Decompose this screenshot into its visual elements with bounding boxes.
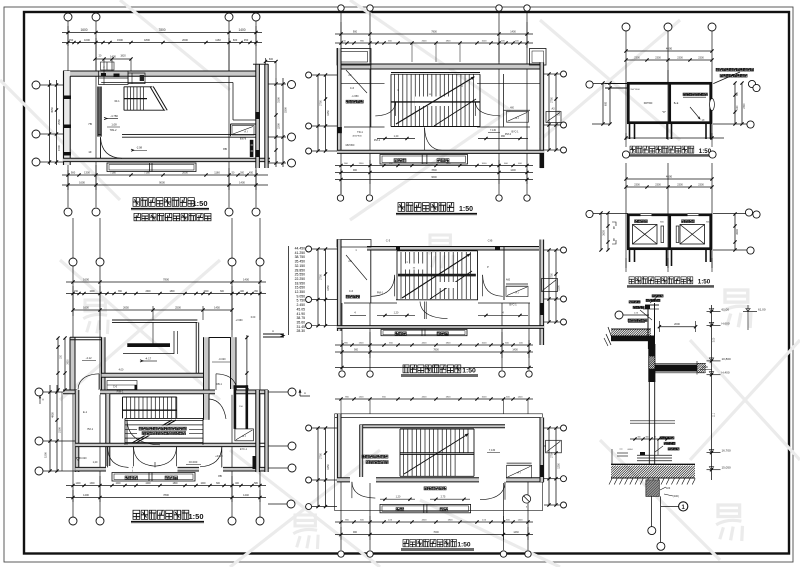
svg-text:28.30: 28.30 — [297, 329, 306, 333]
svg-text:C: C — [461, 84, 463, 88]
svg-text:-2.660: -2.660 — [235, 319, 243, 322]
D7 car door gaps — [641, 213, 699, 217]
D2 top dimension line 3 — [71, 286, 260, 330]
svg-text:61,00: 61,00 — [758, 308, 766, 312]
D8 top level mark — [743, 305, 766, 330]
svg-text:900: 900 — [71, 171, 76, 175]
svg-text:A: A — [272, 329, 274, 333]
D3 right wall — [540, 62, 544, 168]
svg-text:2600: 2600 — [182, 38, 188, 42]
D1 top exterior wall — [63, 71, 257, 76]
D6 shaft walls — [628, 70, 710, 123]
svg-text:2300: 2300 — [677, 184, 683, 187]
D3 right room — [504, 108, 531, 123]
D5 bottom dimension line 1 — [335, 520, 533, 524]
D8 wall break lines — [630, 421, 675, 423]
D2 axis bubbles top — [69, 258, 264, 266]
D3 left room — [346, 65, 371, 127]
svg-text:1500: 1500 — [44, 452, 48, 458]
svg-text:1400: 1400 — [510, 31, 516, 34]
svg-text:10,800: 10,800 — [722, 357, 732, 361]
D2 stair flights — [123, 397, 204, 445]
D8 roof slab — [604, 334, 655, 349]
svg-text:9000: 9000 — [159, 181, 165, 185]
svg-text:1400: 1400 — [518, 520, 524, 522]
D4 right outside box — [542, 279, 558, 292]
D5 axis bubbles left — [306, 425, 312, 510]
svg-text:1160: 1160 — [214, 171, 220, 175]
D1 door arc to corridor — [101, 137, 123, 158]
D2 court landing wall — [102, 373, 204, 377]
D2 canopy line — [112, 320, 199, 373]
D8 sill detail — [612, 437, 679, 464]
D5 hook symbol — [522, 495, 530, 509]
D1 right dim lines — [274, 78, 287, 167]
D3 axis bubbles right — [561, 71, 567, 153]
svg-text:1400: 1400 — [239, 181, 245, 185]
D2 bottom steps — [112, 473, 222, 482]
svg-text:1400: 1400 — [83, 493, 89, 497]
svg-text:900: 900 — [354, 349, 359, 352]
svg-text:H,400: H,400 — [722, 371, 730, 375]
svg-text:1000: 1000 — [482, 343, 488, 345]
svg-text:2700: 2700 — [551, 452, 554, 458]
D2 stair mid text — [139, 427, 186, 435]
svg-text:4400: 4400 — [422, 520, 428, 522]
D1 interior corridor wall — [98, 135, 256, 138]
D4 right dim lines — [547, 248, 560, 323]
D8 drop line 1 — [648, 496, 656, 534]
D1 top dimension line 2 — [62, 26, 262, 72]
D6 axis bubble left — [586, 81, 593, 88]
svg-text:MM 800: MM 800 — [346, 144, 355, 147]
svg-text:7B: 7B — [88, 122, 92, 126]
svg-text:B: B — [613, 226, 615, 230]
D8 foundation label — [664, 494, 679, 498]
D3 bottom steps — [380, 155, 468, 165]
D7 right dims — [733, 209, 760, 254]
D4 top wall — [367, 246, 539, 251]
svg-text:±0.000: ±0.000 — [189, 460, 198, 464]
svg-text:1300: 1300 — [359, 163, 365, 165]
D5 right wall — [540, 418, 544, 482]
svg-text:1:50: 1:50 — [192, 199, 207, 208]
D2 main left wall — [75, 390, 79, 472]
D8 parapet detail — [639, 295, 663, 336]
D3 top dimension line 1 — [335, 31, 533, 36]
D7 top dimension line 2 — [624, 184, 713, 189]
D6 top dimension line 2 — [624, 57, 713, 62]
D5 right dim lines — [547, 426, 560, 506]
svg-text:TD-1: TD-1 — [357, 130, 363, 134]
D7 axis grid lines — [592, 163, 747, 268]
svg-text:-4.780: -4.780 — [110, 114, 118, 118]
D4 right wall — [540, 240, 544, 346]
svg-text:2300: 2300 — [634, 184, 640, 187]
svg-text:2550: 2550 — [57, 119, 61, 125]
D4 stair flights — [396, 251, 478, 300]
svg-text:1600: 1600 — [83, 277, 89, 281]
D6 below-wall stubs — [624, 124, 724, 147]
D2 south wall — [75, 466, 268, 472]
svg-text:7800: 7800 — [433, 349, 439, 352]
D3 axis bubbles bottom — [337, 195, 530, 201]
D1 axis bubbles right — [288, 81, 296, 168]
svg-text:1250: 1250 — [327, 285, 330, 291]
svg-text:2300: 2300 — [655, 184, 661, 187]
svg-text:2650: 2650 — [123, 306, 129, 310]
D4 title — [401, 365, 478, 376]
D3 upper-right box — [530, 49, 547, 66]
D4 window tags — [386, 239, 493, 243]
D3 bottom wall — [337, 150, 544, 153]
D1 interior vertical wall — [98, 87, 101, 137]
svg-text:2500: 2500 — [175, 306, 181, 310]
D8 axis bubble — [615, 311, 649, 319]
D6 left appendix — [601, 81, 627, 125]
svg-text:450: 450 — [249, 172, 254, 175]
svg-text:1820: 1820 — [120, 55, 126, 58]
svg-text:A60: A60 — [506, 279, 511, 282]
svg-text:1160: 1160 — [215, 38, 221, 42]
svg-text:1400: 1400 — [359, 397, 365, 399]
D5 left dim lines — [316, 426, 329, 508]
D6 axis grid lines — [592, 31, 712, 140]
D1 stair flight — [124, 87, 167, 111]
D3 bottom dimension line 1 — [335, 163, 533, 167]
D4 left dim lines — [316, 247, 329, 327]
svg-text:2K: 2K — [348, 259, 351, 263]
svg-text:2300: 2300 — [634, 57, 640, 60]
D2 table arrow symbol — [263, 329, 284, 337]
svg-text:7800: 7800 — [158, 28, 165, 32]
D5 north arrow symbol — [299, 390, 310, 396]
svg-text:600: 600 — [605, 101, 608, 106]
D4 axis grid lines — [312, 249, 560, 370]
D6 axis bubbles top — [622, 23, 716, 31]
D1 bottom dimension line 2 — [62, 165, 268, 190]
svg-text:-1.650: -1.650 — [351, 95, 359, 98]
svg-text:1:50: 1:50 — [462, 368, 476, 375]
D3 bottom dimension line 2 — [335, 169, 533, 174]
svg-text:3100: 3100 — [277, 97, 281, 103]
D2 corridor wall — [75, 443, 268, 446]
svg-text:1X: 1X — [702, 119, 705, 122]
svg-text:A.I: A.I — [515, 291, 519, 295]
D1 stair top landing boxes — [99, 71, 146, 85]
D5 top wall — [335, 418, 543, 428]
svg-text:1:50: 1:50 — [698, 279, 711, 286]
svg-text:A.I: A.I — [242, 434, 246, 438]
D5 left wall — [337, 414, 341, 482]
svg-text:4600: 4600 — [666, 175, 673, 179]
D8 ground slab hatch — [599, 464, 710, 478]
svg-text:1400: 1400 — [75, 483, 81, 485]
D8 mid floor slab — [655, 321, 717, 375]
svg-text:11,1: 11,1 — [714, 412, 716, 417]
D8 soil hatch — [609, 479, 695, 485]
svg-text:EYC-1: EYC-1 — [240, 448, 248, 451]
svg-text:7,130: 7,130 — [489, 449, 496, 452]
D5 door arc left — [352, 482, 375, 498]
svg-text:-2.08: -2.08 — [136, 146, 143, 150]
svg-text:1440: 1440 — [243, 493, 249, 497]
svg-text:1300: 1300 — [359, 343, 365, 345]
svg-text:1000: 1000 — [203, 291, 209, 293]
D4 south inner line — [344, 302, 530, 304]
D8 drop line 2 — [657, 496, 665, 550]
svg-text:7800: 7800 — [431, 31, 437, 34]
svg-text:C-B: C-B — [488, 239, 493, 243]
D5 top dimension line — [335, 397, 533, 401]
svg-text:1000: 1000 — [482, 163, 488, 165]
D4 left wall — [337, 240, 341, 332]
D5 machine texts — [362, 449, 500, 464]
svg-text:7800: 7800 — [163, 277, 169, 281]
svg-text:1400: 1400 — [243, 277, 249, 281]
D3 axis bubbles left — [306, 72, 312, 154]
D1 bottom exterior wall — [63, 158, 270, 161]
svg-text:1400: 1400 — [110, 55, 116, 59]
D8 level dim line — [710, 305, 716, 480]
svg-text:4950: 4950 — [50, 107, 54, 113]
D2 small room right — [235, 429, 256, 469]
svg-text:1800: 1800 — [169, 291, 175, 293]
D2 right outer wall — [265, 390, 268, 472]
svg-text:3,00: 3,00 — [714, 337, 716, 342]
svg-text:1800: 1800 — [172, 483, 178, 485]
svg-text:450: 450 — [244, 38, 249, 42]
svg-text:1:50: 1:50 — [188, 512, 203, 521]
D6 machine texts — [630, 89, 707, 122]
D2 door arc mid — [127, 420, 160, 445]
D5 stair flights — [400, 429, 474, 476]
svg-text:E-1: E-1 — [83, 410, 88, 414]
D8 foundation — [629, 480, 677, 497]
D2 bottom dimension line 1 — [66, 483, 266, 487]
D6 right leaders — [710, 68, 761, 110]
D1 small top dim — [93, 55, 132, 72]
D4 right room — [504, 247, 528, 307]
D7 elevator car left — [633, 225, 658, 245]
D1 axis bubbles bottom — [64, 208, 260, 216]
D2 upper texts — [82, 356, 157, 362]
D5 bottom wall — [337, 477, 544, 483]
svg-text:2700: 2700 — [320, 453, 323, 459]
svg-text:799-2: 799-2 — [110, 128, 117, 132]
D4 axis bubbles left — [306, 246, 312, 329]
svg-text:-4.17: -4.17 — [145, 357, 152, 361]
D3 stair landing lines — [341, 83, 544, 85]
D6 title — [628, 146, 714, 156]
svg-text:C-6: C-6 — [349, 289, 354, 293]
D2 right shaft wall — [256, 390, 260, 472]
svg-text:1000: 1000 — [482, 41, 488, 43]
D5 door arc right — [480, 482, 505, 500]
D1 right outer wall — [253, 64, 268, 168]
svg-text:2600: 2600 — [422, 41, 428, 43]
svg-text:2600: 2600 — [145, 291, 151, 293]
svg-text:FIM-1: FIM-1 — [117, 390, 124, 394]
svg-text:1250: 1250 — [327, 110, 330, 116]
D1 axis grid lines — [40, 21, 286, 207]
D5 roof outline — [335, 414, 543, 511]
D5 bottom steps — [380, 504, 471, 512]
svg-text:8B: 8B — [223, 147, 227, 151]
D3 left wall — [337, 48, 362, 152]
D1 bottom steps — [107, 163, 196, 172]
svg-text:2K: 2K — [348, 73, 351, 77]
svg-text:4600: 4600 — [666, 47, 673, 51]
svg-text:2700: 2700 — [320, 100, 323, 106]
D3 top dimension line 2 — [335, 22, 533, 62]
svg-text:1250: 1250 — [327, 464, 330, 470]
svg-text:1250: 1250 — [558, 463, 561, 469]
D5 right room — [507, 463, 532, 478]
D5 bottom dimension line 2 — [335, 516, 533, 540]
D2 bottom dimension line 2 — [66, 476, 266, 502]
svg-text:BYC-1: BYC-1 — [511, 131, 519, 134]
svg-text:1300: 1300 — [89, 483, 95, 485]
svg-text:A.I: A.I — [517, 471, 521, 475]
D2 elevation table — [289, 246, 306, 335]
svg-text:C20: C20 — [666, 488, 671, 490]
D3 right outside box — [511, 108, 561, 134]
svg-text:C-6: C-6 — [350, 86, 355, 90]
svg-text:B+E: B+E — [674, 102, 679, 105]
svg-text:10,80: 10,80 — [702, 366, 709, 369]
svg-text:1600: 1600 — [79, 181, 85, 185]
D2 upper court east wall — [204, 337, 210, 390]
svg-text:4400: 4400 — [422, 343, 428, 345]
D4 door arc bottom — [420, 302, 448, 320]
D1 top dimension line 1 — [62, 28, 262, 34]
D4 bottom wall — [337, 326, 544, 329]
D5 axis bubbles right — [561, 425, 567, 508]
svg-text:150: 150 — [69, 38, 74, 42]
D1 left dim lines — [48, 80, 61, 165]
D3 right dim lines — [547, 72, 560, 151]
D7 below-wall stubs — [626, 249, 712, 272]
svg-text:2100: 2100 — [58, 427, 62, 433]
D3 left dim lines — [316, 73, 329, 152]
D3 door arc bottom — [425, 128, 443, 151]
D4 upper-left box — [337, 240, 371, 248]
D8 level marks — [707, 308, 732, 470]
svg-text:PM-1: PM-1 — [374, 138, 381, 142]
svg-text:2000: 2000 — [674, 322, 680, 326]
D4 axis bubbles right — [561, 247, 567, 325]
D2 axis grid lines — [43, 218, 288, 517]
D1 title — [131, 198, 209, 210]
svg-text:900: 900 — [353, 169, 358, 172]
svg-text:1000: 1000 — [482, 397, 488, 399]
svg-text:1,20: 1,20 — [93, 461, 98, 464]
svg-text:2700: 2700 — [320, 274, 323, 280]
D4 axis bubbles bottom — [339, 371, 532, 377]
D8 upper wall — [637, 336, 668, 382]
svg-text:4,00: 4,00 — [119, 369, 124, 372]
D4 bottom steps — [381, 330, 467, 336]
D1 axis bubbles top — [64, 13, 260, 21]
D4 bottom dimension line 3 — [335, 332, 533, 370]
D8 lower wall — [649, 382, 654, 464]
D2 top dimension line 2 — [66, 291, 266, 295]
svg-text:1400: 1400 — [512, 349, 518, 352]
svg-text:2,75: 2,75 — [441, 496, 446, 499]
svg-text:2300: 2300 — [744, 103, 746, 109]
D4 bottom dimension line 2 — [335, 349, 533, 354]
D2 main top wall — [63, 389, 268, 395]
D3 door arc left — [375, 102, 395, 116]
svg-text:7800: 7800 — [431, 169, 437, 172]
svg-text:2200: 2200 — [277, 123, 281, 129]
svg-text:+0.020: +0.020 — [215, 455, 223, 458]
svg-text:1250: 1250 — [558, 110, 561, 116]
svg-text:2600: 2600 — [603, 230, 606, 236]
svg-text:2300: 2300 — [698, 184, 704, 187]
D3 stair flights — [391, 74, 480, 126]
svg-text:1000: 1000 — [89, 291, 95, 293]
D2 stairhall door arc NE — [209, 399, 226, 419]
svg-text:5300: 5300 — [284, 107, 288, 113]
svg-text:2300: 2300 — [677, 57, 683, 60]
D7 counterweight right — [676, 226, 679, 243]
D5 mid texts — [380, 487, 470, 501]
D2 upper retaining wall — [123, 322, 178, 354]
D3 door arc right — [475, 74, 503, 127]
D5 axis grid lines — [312, 399, 560, 550]
D2 left dim lines — [44, 385, 63, 473]
D3 title — [396, 203, 477, 215]
svg-text:1500: 1500 — [57, 145, 61, 151]
svg-text:-0.020: -0.020 — [79, 457, 87, 460]
D2 vent shaft black walls — [234, 385, 249, 429]
svg-text:1600: 1600 — [80, 28, 87, 32]
D2 title — [131, 510, 204, 523]
svg-text:A.I: A.I — [515, 116, 519, 120]
D8 detail bubble 1 — [661, 502, 688, 511]
svg-text:900: 900 — [353, 531, 358, 534]
svg-text:1F: 1F — [88, 150, 92, 154]
D3 upper-left vent box — [337, 49, 371, 66]
D5 title — [401, 539, 474, 550]
svg-text:C-3: C-3 — [386, 239, 391, 243]
D4 left room — [346, 250, 371, 303]
D2 axis bubbles bottom — [69, 517, 264, 525]
D4 interior labels — [355, 249, 510, 295]
D3 axis bubbles top — [338, 5, 530, 11]
D2 top dimension line 1 — [66, 277, 266, 283]
svg-text:8B: 8B — [218, 474, 222, 478]
svg-text:4400: 4400 — [422, 163, 428, 165]
svg-text:2300: 2300 — [655, 57, 661, 60]
D2 north door arcs — [78, 374, 237, 390]
D7 counterweight left — [661, 226, 664, 243]
svg-text:1800: 1800 — [446, 163, 452, 165]
svg-text:*R*: *R* — [662, 111, 666, 114]
D7 left dims — [599, 211, 616, 251]
svg-text:H,600: H,600 — [722, 321, 730, 325]
D2 interior west wall — [106, 394, 110, 468]
svg-text:0.00: 0.00 — [251, 317, 256, 319]
D1 small room right — [231, 124, 256, 157]
D1 subtitle — [134, 213, 211, 220]
svg-text:1600: 1600 — [83, 306, 89, 310]
svg-text:1000: 1000 — [84, 38, 90, 42]
svg-text:61,00: 61,00 — [722, 308, 730, 312]
svg-text:15,050: 15,050 — [722, 466, 732, 470]
